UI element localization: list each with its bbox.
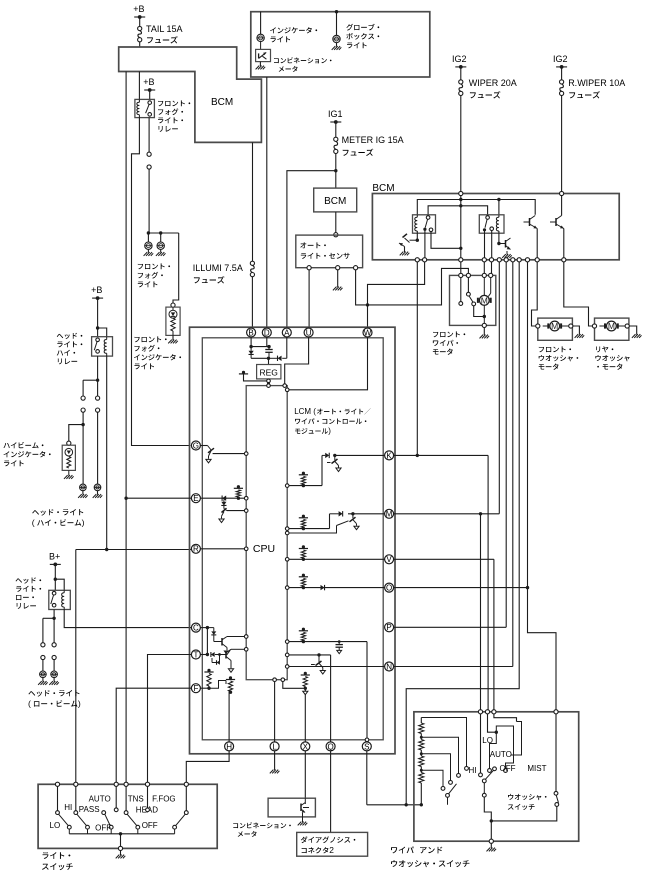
driver pin C (200, 627, 207, 629)
pin G (191, 441, 200, 450)
wire P net external (394, 626, 507, 628)
wire V net (394, 558, 494, 560)
wire N internal (285, 665, 289, 669)
svg-text:BCM: BCM (372, 183, 394, 194)
svg-text:LCM (: LCM ( (294, 407, 316, 416)
wire BCM1 to TNS vertical (125, 72, 127, 785)
driver pin M (285, 527, 289, 531)
svg-text:REG: REG (259, 368, 277, 378)
lamp indicator light (260, 12, 262, 35)
wire bundle P net (505, 262, 507, 627)
wire Q to diagnosis connector (330, 751, 332, 833)
common light switch to ground (69, 833, 174, 835)
ladder tap 4 (421, 770, 443, 786)
svg-text:OFF: OFF (142, 821, 158, 830)
svg-text:C: C (193, 624, 199, 633)
switch box light switch (38, 784, 217, 848)
svg-text:M: M (551, 321, 558, 331)
svg-text:K: K (386, 451, 392, 460)
pin X (301, 742, 310, 751)
svg-text:+B: +B (133, 4, 144, 14)
svg-text:N: N (386, 662, 392, 671)
pin W (363, 328, 372, 337)
svg-text:T: T (193, 650, 198, 659)
svg-text:X: X (303, 742, 309, 751)
svg-text:): ) (328, 427, 331, 436)
svg-text:+B: +B (91, 285, 102, 295)
svg-text:): ) (82, 518, 85, 528)
svg-text:B+: B+ (49, 551, 60, 561)
motor box rear washer motor (595, 318, 629, 340)
wire W net to pin W (367, 305, 369, 328)
connector low beam right (52, 643, 56, 647)
wire pin L internal (274, 682, 276, 742)
ground combination meter (259, 62, 261, 66)
driver S Q N cluster (285, 640, 289, 644)
pin sensor out 1 (307, 266, 311, 270)
fuse ILLUMI 7.5A (252, 142, 254, 261)
wire sensor W net (356, 268, 469, 305)
wire WIPER fuse to BCM2 (460, 96, 462, 192)
connector in fog light feed (147, 152, 151, 156)
wire TAIL fuse to BCM1 (139, 42, 141, 47)
driver pin K (285, 484, 289, 488)
pin BCM2 wiper feed (459, 191, 463, 195)
svg-text:HI: HI (469, 766, 477, 775)
svg-text:R.WIPER 10A: R.WIPER 10A (568, 78, 625, 88)
svg-text:B: B (248, 328, 253, 337)
wire to pin A (287, 171, 336, 328)
wire BCM1 to fog relay coil (138, 72, 140, 100)
svg-text:MIST: MIST (527, 764, 546, 773)
motor box front washer motor (538, 318, 573, 340)
svg-text:TNS: TNS (128, 795, 144, 804)
driver pin V (285, 558, 289, 562)
ladder tap 3 (421, 754, 450, 781)
wire M net (394, 513, 500, 515)
svg-text:(: ( (28, 699, 31, 709)
svg-text:+B: +B (143, 77, 154, 87)
pin A (282, 328, 291, 337)
junction high indicator tap (81, 423, 84, 426)
rail BCM2 lower (428, 206, 488, 216)
wire pin W internal (289, 337, 367, 390)
svg-text:L: L (272, 742, 277, 751)
svg-text:AUTO: AUTO (89, 795, 111, 804)
wire H to light switch (186, 751, 229, 784)
svg-text:): ) (78, 699, 81, 709)
wire O net external (394, 587, 528, 589)
svg-text:LO: LO (482, 736, 493, 745)
switch HI/LO (57, 786, 59, 810)
zener pin B (250, 347, 252, 351)
wire pin D internal (266, 337, 268, 347)
wire T4 emitter to rear washer (563, 229, 565, 258)
wire connector to fog lamps (148, 169, 150, 233)
svg-text:BCM: BCM (324, 196, 346, 207)
pin BCM2 relay1 out (423, 258, 427, 262)
svg-text:E: E (193, 494, 198, 503)
wire pin H internal (229, 692, 230, 742)
zener branch pin E (223, 500, 225, 502)
transistor BCM2 T3 (front washer) (529, 218, 531, 226)
regulator REG (268, 358, 270, 364)
junction high beam split (96, 379, 99, 382)
ground front wiper motor (483, 328, 485, 336)
ground sensor (337, 270, 339, 287)
ground high beam indicator (64, 475, 74, 479)
pin M (385, 509, 394, 518)
wire REG to CPU (268, 379, 270, 386)
svg-text:H: H (226, 742, 232, 751)
switch box wiper and washer switch (414, 712, 579, 841)
pin F (191, 684, 200, 693)
wire T3 emitter to front washer (536, 229, 538, 258)
svg-text:W: W (364, 328, 372, 337)
ground front washer motor (573, 326, 580, 335)
pin E (191, 494, 200, 503)
indicator front fog indicator light (171, 303, 175, 307)
wire BCM2 relay output to W net (368, 262, 425, 305)
wire bundle N net (512, 262, 514, 667)
LO AUTO OFF routing (490, 732, 497, 768)
wire park switch common (460, 278, 462, 302)
wiper switch common (483, 783, 485, 793)
svg-text:WIPER 20A: WIPER 20A (469, 78, 517, 88)
module box combination meter lights (251, 12, 430, 77)
pin D (262, 328, 271, 337)
washer switch (555, 714, 557, 791)
wire pin B internal (250, 337, 252, 347)
lamp front fog right (160, 233, 162, 242)
svg-text:G: G (193, 441, 199, 450)
wire F to light switch (116, 688, 191, 784)
relay headlight low relay (49, 590, 71, 609)
wire pin U internal (285, 337, 309, 384)
ground BCM2 T1 (400, 252, 410, 256)
svg-text:HI: HI (64, 803, 72, 812)
svg-text:LO: LO (50, 821, 61, 830)
pin sensor out 2 (354, 266, 358, 270)
park switch arm (467, 278, 469, 293)
relay headlight high relay (92, 337, 113, 356)
wire wiper switch feed 2 to LO (488, 714, 497, 732)
driver pin O (285, 586, 289, 590)
wire washer-switch net into box (518, 688, 520, 690)
svg-text:TAIL 15A: TAIL 15A (146, 24, 183, 34)
svg-text:F: F (193, 684, 198, 693)
wire S driver to pin S (366, 642, 368, 738)
wire +B to TAIL fuse (139, 17, 141, 26)
wire T to light switch (148, 655, 192, 785)
svg-text:IG2: IG2 (452, 54, 467, 64)
transistor BCM2 T4 (rear washer) (555, 218, 557, 226)
svg-text:(: ( (32, 518, 35, 528)
vref tap (242, 371, 245, 374)
indicator high beam indicator light (67, 441, 71, 445)
pin P (385, 623, 394, 632)
wire bundle O net (527, 262, 529, 588)
pin T (191, 650, 200, 659)
connector low beam left (41, 643, 45, 647)
meter driver combination meter (260, 42, 262, 50)
svg-text:CPU: CPU (253, 543, 275, 555)
switch TNS/HEAD (115, 786, 117, 807)
wire sensor to pin U (308, 270, 310, 328)
selector arm low side (446, 794, 450, 798)
wire low relay coil to C line (64, 610, 191, 628)
svg-text:Q: Q (327, 742, 333, 751)
resistor ladder wiper switch (420, 718, 422, 724)
wire meter box to pin D (266, 77, 268, 328)
transistor BCM2 T2 (498, 231, 500, 244)
svg-text:P: P (386, 623, 391, 632)
pin K (385, 451, 394, 460)
pin sensor ground (336, 266, 340, 270)
wire E to TNS vertical (126, 497, 191, 499)
svg-text:AUTO: AUTO (490, 750, 512, 759)
pins wiper switch (478, 710, 482, 714)
wire relay1 NC output (424, 229, 426, 258)
pins front wiper motor (459, 273, 463, 277)
ground pin L (274, 751, 276, 770)
driver pin G (200, 445, 207, 447)
svg-text:M: M (481, 295, 488, 305)
pin Q (326, 742, 335, 751)
svg-text:2: 2 (329, 845, 334, 855)
relay BCM2 wiper relay 1 (413, 215, 436, 233)
wire S to wiper switch (366, 751, 368, 805)
wire relay2 out B (491, 231, 493, 258)
pin H (225, 742, 234, 751)
svg-text:U: U (306, 328, 312, 337)
wire relay2 coil feed (498, 200, 500, 218)
module box BCM3 (314, 188, 357, 212)
lamp glove box light (336, 12, 338, 36)
lamp headlight high left (82, 425, 84, 484)
wire low beam left (42, 618, 44, 642)
svg-text:F.FOG: F.FOG (152, 795, 176, 804)
pin V (385, 555, 394, 564)
svg-text:METER IG 15A: METER IG 15A (342, 135, 404, 145)
wire IG1 to METER fuse (335, 122, 337, 137)
svg-text:OFF: OFF (95, 824, 111, 833)
motor box front wiper motor (450, 275, 496, 325)
wire pin R internal (200, 548, 244, 550)
fuse R.WIPER 10A (560, 80, 564, 84)
wire pin A internal with diode (286, 337, 288, 358)
wire R.WIPER fuse to BCM2 (561, 96, 563, 192)
pin L (270, 742, 279, 751)
pins light switch (55, 782, 59, 786)
meter driver box (combination meter 2) (268, 798, 315, 817)
wire X to combination meter driver (304, 751, 306, 798)
washer switch to common (491, 807, 557, 821)
ground combination meter 2 (302, 813, 304, 823)
module box LCM outer (190, 327, 396, 754)
svg-text:IG1: IG1 (328, 109, 343, 119)
fuse TAIL 15A (138, 26, 142, 30)
wire METER fuse down (335, 154, 337, 189)
module box BCM1 (body control module) (119, 47, 262, 142)
lamp headlight low right (53, 660, 55, 671)
connector high beam right (96, 396, 100, 400)
ground BCM2 T2 (502, 254, 512, 258)
junction E line on TNS vertical (124, 497, 127, 500)
svg-text:O: O (386, 584, 392, 593)
pin R (191, 544, 200, 553)
svg-text:PASS: PASS (79, 805, 100, 814)
relay BCM2 wiper relay 2 (479, 215, 504, 233)
cpu box (246, 386, 287, 680)
driver pin E (200, 497, 226, 499)
svg-text:IG2: IG2 (553, 54, 568, 64)
pin C (191, 623, 200, 632)
svg-text:S: S (364, 742, 369, 751)
wire R line to light switch (76, 549, 192, 551)
wire ILLUMI fuse to pin B (251, 277, 253, 328)
motor front wiper M (483, 278, 485, 296)
wire relay2 out A (484, 230, 486, 258)
junction high relay feed (96, 326, 99, 329)
wire bundle M net (498, 262, 500, 514)
svg-text:OFF: OFF (500, 764, 516, 773)
svg-text:M: M (608, 321, 615, 331)
svg-text:R: R (193, 545, 199, 554)
wire fog relay coil to G pin (132, 118, 191, 446)
module box LCM inner (202, 338, 383, 740)
svg-text:M: M (386, 510, 393, 519)
wire BCM3 to auto light sensor (335, 212, 337, 233)
capacitor B-D node (268, 347, 270, 350)
wire Q driver (285, 653, 289, 657)
junction W net (366, 303, 369, 306)
switch AUTO/OFF (102, 811, 106, 815)
wire pin X internal (304, 688, 306, 742)
lamp front fog left (147, 233, 149, 242)
svg-text:ILLUMI 7.5A: ILLUMI 7.5A (193, 263, 243, 273)
pin U (304, 328, 313, 337)
wire N net external (394, 666, 513, 668)
pin N (385, 662, 394, 671)
junction low relay feed (54, 578, 57, 581)
rail BCM2 upper (417, 200, 535, 215)
relay front fog light relay (135, 99, 155, 117)
wire relay1 coil to transistor (416, 231, 418, 240)
wiper switch ground (490, 821, 492, 839)
wire high beam left (82, 380, 84, 396)
wire low relay switch out (53, 610, 55, 619)
wire T4 collector (561, 196, 563, 216)
wire +B to fog relay switch (149, 90, 151, 99)
switch F.FOG/OFF (147, 786, 149, 807)
wire wiper switch feed 1 (480, 714, 482, 773)
junction glove box lamp (335, 10, 338, 13)
junction low beam split (52, 617, 55, 620)
wire high beam right (97, 380, 99, 396)
connector high beam left (81, 396, 85, 400)
wire bundle washer-switch net (406, 262, 519, 805)
driver pin F (200, 687, 209, 689)
diagnosis connector box (297, 832, 368, 856)
wiper selector arm (482, 779, 486, 783)
pin O (385, 583, 394, 592)
junction pin A branch (334, 169, 337, 172)
sensor auto light sensor (296, 235, 363, 268)
wire BCM2 to K junction (416, 262, 418, 455)
ladder tap 2 (421, 737, 458, 773)
wire relay1 NO to feed (431, 232, 461, 249)
fuse METER IG 15A (334, 137, 338, 141)
pins BCM2 to LCM bundle (415, 258, 419, 262)
pin BCM2 rear wiper feed (560, 191, 564, 195)
fuse WIPER 20A (459, 80, 463, 84)
ground rear washer motor (629, 326, 636, 335)
pin S (362, 742, 371, 751)
ladder tap 1 (421, 718, 466, 767)
wire low beam right (53, 618, 55, 642)
wire K net (394, 454, 489, 456)
wire high relay coil return to R line (106, 356, 108, 549)
wire wiper switch feed 3 (494, 714, 517, 722)
lamp headlight high right (97, 412, 99, 484)
svg-text:V: V (386, 555, 392, 564)
pin B (247, 328, 256, 337)
driver pin T (200, 654, 207, 656)
svg-text:D: D (264, 328, 270, 337)
switch PASS (75, 786, 77, 810)
wire BCM2 feed to motor (460, 196, 462, 258)
lamp headlight low left (42, 660, 44, 671)
wire to fog indicator (173, 233, 179, 303)
svg-text:BCM: BCM (211, 97, 233, 108)
wire high relay switch out (97, 356, 99, 380)
wire fog relay switch down (148, 118, 150, 153)
svg-text:A: A (284, 328, 290, 337)
transistor BCM2 T1 (410, 239, 418, 241)
node fog lamp feed (148, 232, 178, 234)
